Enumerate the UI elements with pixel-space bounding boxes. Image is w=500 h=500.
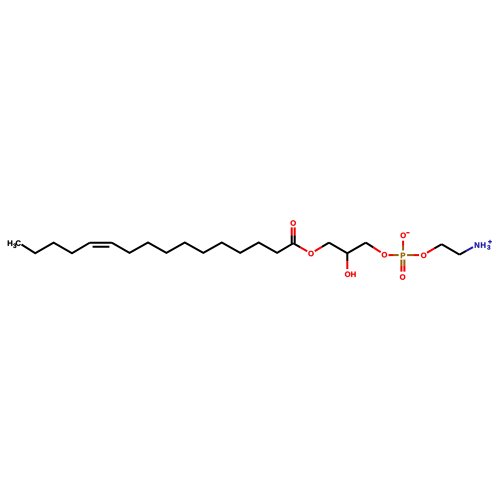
atom label: H of NH3 <box>481 242 486 247</box>
bond: C12=C11 cis double bond (outer line) <box>90 242 112 244</box>
bond: C12=C11 cis double bond (inner line) <box>93 246 110 248</box>
bond: CH2-CH2 ethanolamine <box>442 244 460 254</box>
atom label: phosphoester O (left) <box>382 252 387 257</box>
atom label: subscript 3 of H3C <box>13 244 16 248</box>
bond: C1-O ester <box>293 243 300 247</box>
atom label: ester O <box>308 251 313 256</box>
atom label: phosphate O minus <box>401 233 406 238</box>
bond: CH2-N <box>460 251 467 255</box>
bond: P=O double bond (vertical down) <box>400 260 402 266</box>
atom label: terminal H of H3C <box>8 241 13 246</box>
bond: O-P (left horizontal) <box>389 254 394 256</box>
bond: glycerol C1-C2 <box>329 243 347 254</box>
bond: O-CH2 glycerol C1 <box>315 247 322 251</box>
atom label: phosphoester O (right) <box>421 253 426 258</box>
atom label: N of ammonium <box>475 242 480 247</box>
bond: carbonyl C1=O double bond <box>291 227 293 235</box>
atom label: subscript 3 <box>487 245 490 249</box>
atom label: hydroxyl H <box>351 272 356 277</box>
wire: alkyl chain C11-C1 to carbonyl <box>112 243 293 253</box>
atom label: hydroxyl O <box>345 272 350 277</box>
bond: O-CH2 ethanolamine <box>427 248 434 252</box>
charge: superscript plus on NH3 <box>488 241 492 242</box>
bond: C3-O phosphoester <box>366 243 374 248</box>
wire: alkyl chain C16-C12 (terminal segment) <box>22 243 90 254</box>
atom label: phosphate =O <box>400 274 405 279</box>
bond: P-O (right horizontal) <box>407 254 413 256</box>
bond: glycerol C2-C3 <box>347 243 366 254</box>
bond: C2-OH hydroxyl <box>346 253 348 261</box>
atom label: phosphorus P <box>401 253 405 258</box>
bond: P-O(-) (vertical up) <box>402 246 404 251</box>
charge: superscript minus on O <box>406 232 409 233</box>
atom label: carbonyl O <box>291 220 296 225</box>
atom label: terminal C of H3C <box>16 240 21 245</box>
